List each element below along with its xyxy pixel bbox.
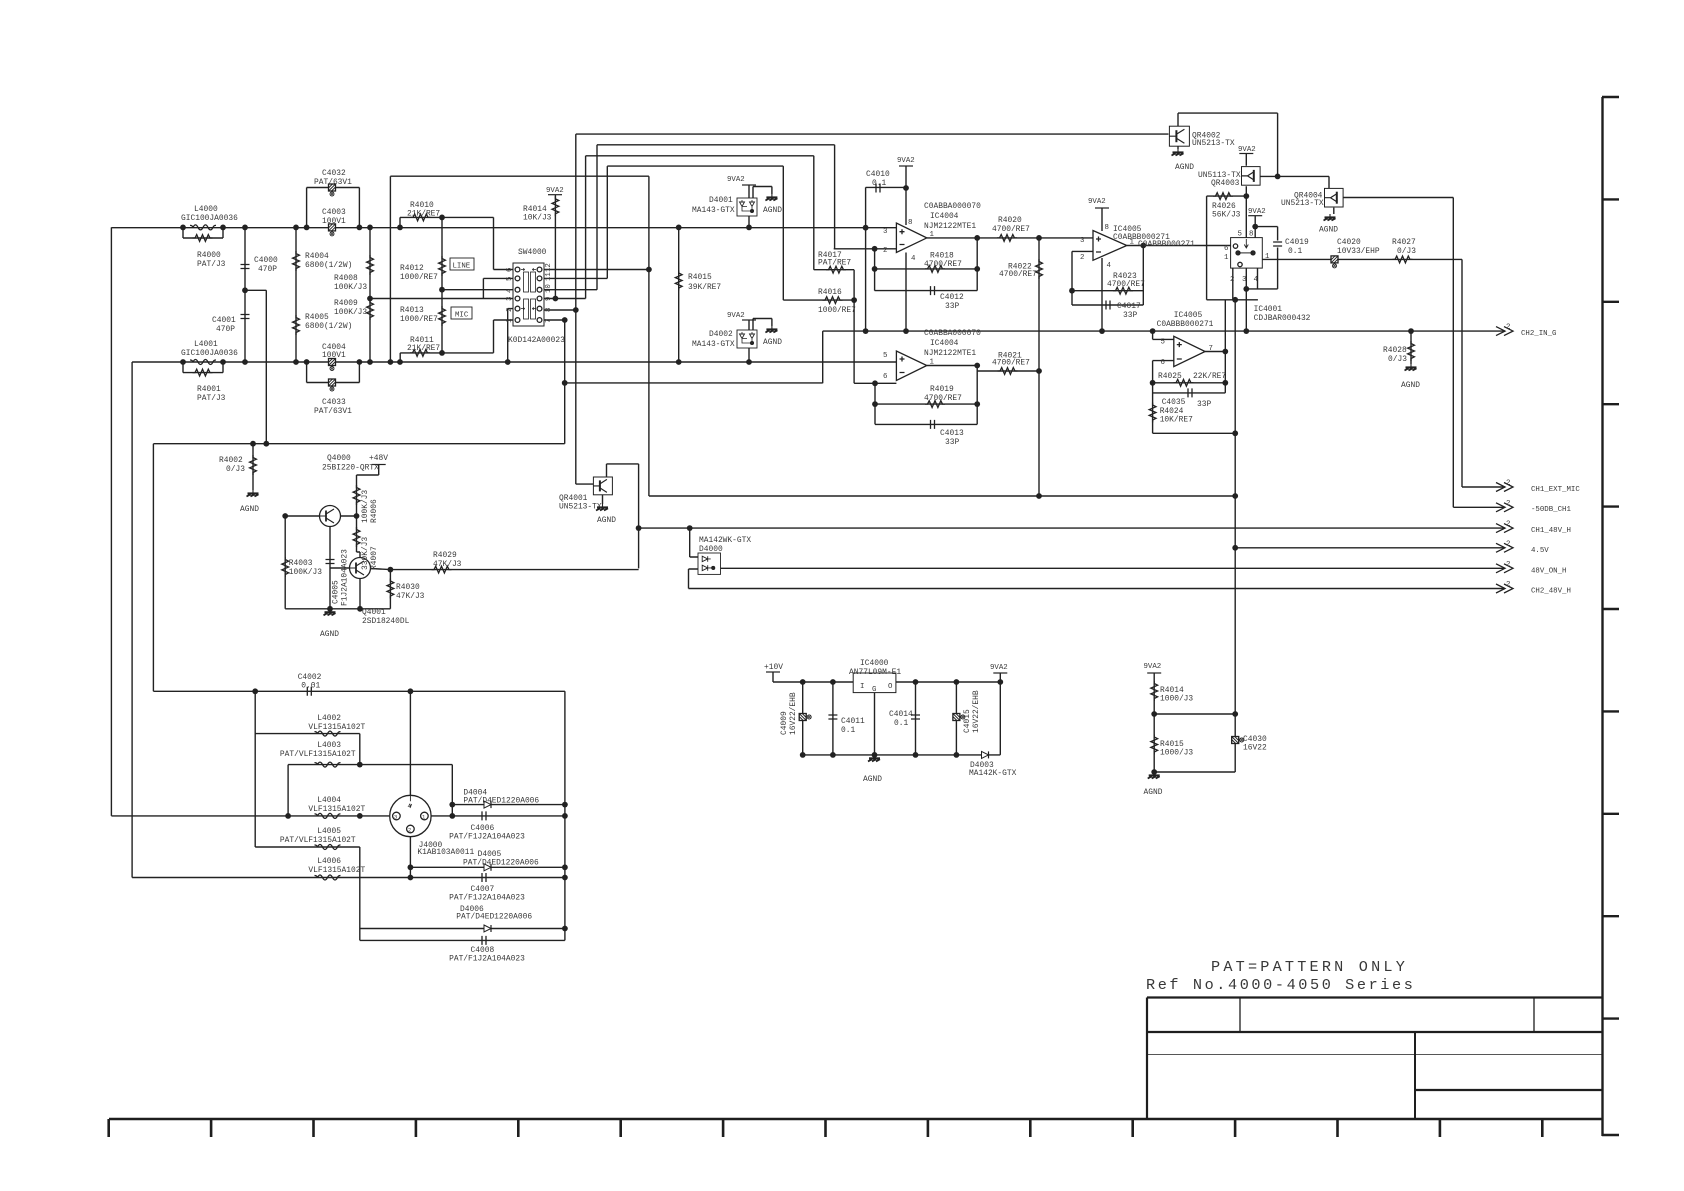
svg-text:2: 2 xyxy=(1506,581,1510,589)
svg-text:R4005: R4005 xyxy=(305,313,329,322)
svg-text:4.5V: 4.5V xyxy=(1531,547,1549,555)
svg-text:4700/RE7: 4700/RE7 xyxy=(1107,280,1145,289)
svg-text:QR4003: QR4003 xyxy=(1211,179,1240,188)
svg-text:R4008: R4008 xyxy=(334,274,358,283)
svg-text:GIC100JA0036: GIC100JA0036 xyxy=(181,349,238,358)
svg-text:C4003: C4003 xyxy=(322,208,346,217)
svg-text:2: 2 xyxy=(408,827,411,834)
svg-text:100K/J3: 100K/J3 xyxy=(289,568,322,577)
svg-text:PAT/F1J2A104A023: PAT/F1J2A104A023 xyxy=(449,955,525,964)
svg-text:5: 5 xyxy=(506,277,514,281)
svg-text:L4006: L4006 xyxy=(317,857,341,866)
svg-text:1000/J3: 1000/J3 xyxy=(1160,749,1193,758)
svg-text:C4020: C4020 xyxy=(1337,238,1361,247)
svg-text:K0D142A00023: K0D142A00023 xyxy=(508,336,565,345)
svg-text:100K/J3: 100K/J3 xyxy=(334,283,367,292)
svg-text:PAT/F1J2A104A023: PAT/F1J2A104A023 xyxy=(449,833,525,842)
svg-text:47K/J3: 47K/J3 xyxy=(396,592,425,601)
svg-text:1: 1 xyxy=(1130,239,1135,247)
svg-text:PAT/RE7: PAT/RE7 xyxy=(818,259,851,268)
svg-text:16V22/EHB: 16V22/EHB xyxy=(789,692,798,735)
svg-text:8: 8 xyxy=(908,219,912,227)
svg-text:C4012: C4012 xyxy=(940,293,964,302)
svg-text:12: 12 xyxy=(545,263,553,272)
svg-text:R4016: R4016 xyxy=(818,288,842,297)
svg-text:100K/J3: 100K/J3 xyxy=(334,308,367,317)
svg-text:UN5213-TX: UN5213-TX xyxy=(1281,199,1324,208)
svg-text:PAT/63V1: PAT/63V1 xyxy=(314,178,352,187)
svg-text:6800(1/2W): 6800(1/2W) xyxy=(305,261,352,270)
svg-text:2: 2 xyxy=(1080,254,1084,262)
svg-text:2: 2 xyxy=(506,308,514,312)
svg-text:33P: 33P xyxy=(1197,400,1211,409)
svg-text:C4017: C4017 xyxy=(1117,302,1141,311)
svg-text:O: O xyxy=(888,683,893,691)
svg-text:10V33/EHP: 10V33/EHP xyxy=(1337,247,1380,256)
svg-text:PAT/D4ED1220A006: PAT/D4ED1220A006 xyxy=(456,913,532,922)
svg-text:AGND: AGND xyxy=(1401,381,1420,390)
svg-text:MA143-GTX: MA143-GTX xyxy=(692,340,735,349)
svg-text:MA142K-GTX: MA142K-GTX xyxy=(969,769,1017,778)
svg-text:AGND: AGND xyxy=(240,505,259,514)
svg-text:1000/RE7: 1000/RE7 xyxy=(400,273,438,282)
svg-text:1: 1 xyxy=(930,359,935,367)
svg-text:AGND: AGND xyxy=(763,338,782,347)
svg-text:IC4000: IC4000 xyxy=(860,659,889,668)
svg-text:5: 5 xyxy=(1161,339,1165,347)
svg-text:9VA2: 9VA2 xyxy=(727,176,745,184)
svg-text:4: 4 xyxy=(1254,276,1259,284)
svg-text:PAT/VLF1315A102T: PAT/VLF1315A102T xyxy=(280,836,356,845)
svg-text:R4009: R4009 xyxy=(334,299,358,308)
svg-text:2SD18240DL: 2SD18240DL xyxy=(362,617,410,626)
svg-text:0.1: 0.1 xyxy=(894,719,908,728)
svg-text:L4001: L4001 xyxy=(194,340,218,349)
svg-text:R4002: R4002 xyxy=(219,456,243,465)
svg-text:AGND: AGND xyxy=(597,516,616,525)
svg-text:3: 3 xyxy=(883,228,887,236)
svg-text:IC4001: IC4001 xyxy=(1254,305,1283,314)
svg-text:LINE: LINE xyxy=(453,263,471,271)
svg-text:0.1: 0.1 xyxy=(841,726,855,735)
svg-text:+48V: +48V xyxy=(369,454,388,463)
svg-text:I: I xyxy=(860,683,864,691)
svg-text:AGND: AGND xyxy=(763,206,782,215)
svg-text:48V_ON_H: 48V_ON_H xyxy=(1531,568,1566,576)
svg-text:R4019: R4019 xyxy=(930,385,954,394)
svg-text:330K/J3: 330K/J3 xyxy=(361,537,370,570)
svg-text:G: G xyxy=(872,686,876,694)
svg-text:0.01: 0.01 xyxy=(301,682,320,691)
svg-text:K1AB103A0011: K1AB103A0011 xyxy=(417,848,474,857)
svg-text:R4000: R4000 xyxy=(197,251,221,260)
svg-text:0/J3: 0/J3 xyxy=(226,465,245,474)
svg-text:L4002: L4002 xyxy=(317,714,341,723)
svg-text:47K/J3: 47K/J3 xyxy=(433,560,462,569)
svg-text:5: 5 xyxy=(1238,231,1242,239)
svg-text:C0ABBA000070: C0ABBA000070 xyxy=(924,329,981,338)
svg-text:2: 2 xyxy=(1506,480,1510,488)
svg-text:33P: 33P xyxy=(1123,311,1137,320)
svg-text:R4003: R4003 xyxy=(289,559,313,568)
svg-text:MA143-GTX: MA143-GTX xyxy=(692,206,735,215)
svg-text:C4011: C4011 xyxy=(841,717,865,726)
svg-text:2: 2 xyxy=(883,247,887,255)
svg-text:9VA2: 9VA2 xyxy=(1238,146,1256,154)
svg-text:C0ABBB000271: C0ABBB000271 xyxy=(1157,320,1214,329)
svg-text:10K/J3: 10K/J3 xyxy=(523,214,552,223)
svg-text:5: 5 xyxy=(883,352,887,360)
svg-text:6: 6 xyxy=(506,268,514,272)
svg-text:R4013: R4013 xyxy=(400,306,424,315)
svg-text:9VA2: 9VA2 xyxy=(990,664,1008,672)
svg-text:33P: 33P xyxy=(945,438,959,447)
svg-text:PAT/VLF1315A102T: PAT/VLF1315A102T xyxy=(280,750,356,759)
svg-text:PAT/D4ED1220A006: PAT/D4ED1220A006 xyxy=(463,797,539,806)
svg-text:R4027: R4027 xyxy=(1392,238,1416,247)
svg-text:CH1_EXT_MIC: CH1_EXT_MIC xyxy=(1531,486,1580,494)
svg-text:0/J3: 0/J3 xyxy=(1397,247,1416,256)
svg-text:PAT=PATTERN ONLY: PAT=PATTERN ONLY xyxy=(1211,958,1408,976)
svg-text:470P: 470P xyxy=(216,325,235,334)
svg-text:D4002: D4002 xyxy=(709,330,733,339)
svg-text:AGND: AGND xyxy=(320,630,339,639)
svg-text:C4010: C4010 xyxy=(866,170,890,179)
svg-text:VLF1315A102T: VLF1315A102T xyxy=(308,723,365,732)
svg-text:NJM2122MTE1: NJM2122MTE1 xyxy=(924,349,976,358)
svg-text:9VA2: 9VA2 xyxy=(546,187,564,195)
svg-text:C4032: C4032 xyxy=(322,169,346,178)
svg-text:4: 4 xyxy=(408,803,412,810)
svg-text:7: 7 xyxy=(1209,345,1213,353)
svg-text:Q4000: Q4000 xyxy=(327,454,351,463)
svg-text:L4003: L4003 xyxy=(317,741,341,750)
svg-text:7: 7 xyxy=(545,319,553,323)
svg-text:1000/RE7: 1000/RE7 xyxy=(400,315,438,324)
svg-text:1: 1 xyxy=(506,318,514,323)
svg-text:L4004: L4004 xyxy=(317,796,341,805)
svg-text:2: 2 xyxy=(1230,276,1234,284)
svg-text:R4029: R4029 xyxy=(433,551,457,560)
svg-text:4: 4 xyxy=(1107,262,1112,270)
svg-text:100V1: 100V1 xyxy=(322,351,346,360)
svg-text:1: 1 xyxy=(930,231,935,239)
svg-text:8: 8 xyxy=(1105,224,1109,232)
svg-text:56K/J3: 56K/J3 xyxy=(1212,211,1241,220)
svg-text:3: 3 xyxy=(1080,237,1084,245)
svg-text:PAT/J3: PAT/J3 xyxy=(197,260,226,269)
svg-text:9VA2: 9VA2 xyxy=(897,157,915,165)
svg-text:F1J2A104A023: F1J2A104A023 xyxy=(341,549,350,606)
svg-text:CDJBAR000432: CDJBAR000432 xyxy=(1254,314,1311,323)
svg-text:D4000: D4000 xyxy=(699,545,723,554)
svg-text:6: 6 xyxy=(883,373,887,381)
svg-text:AGND: AGND xyxy=(1144,788,1163,797)
svg-text:16V22: 16V22 xyxy=(1243,744,1267,753)
svg-text:6: 6 xyxy=(1161,359,1165,367)
svg-text:4700/RE7: 4700/RE7 xyxy=(999,270,1037,279)
svg-text:NJM2122MTE1: NJM2122MTE1 xyxy=(924,222,976,231)
svg-text:IC4004: IC4004 xyxy=(930,212,959,221)
svg-text:1: 1 xyxy=(1265,253,1270,261)
svg-text:1000/RE7: 1000/RE7 xyxy=(818,306,856,315)
svg-text:33P: 33P xyxy=(945,302,959,311)
svg-text:R4006: R4006 xyxy=(370,499,379,523)
svg-text:CH1_48V_H: CH1_48V_H xyxy=(1531,527,1571,535)
svg-text:CH2_48V_H: CH2_48V_H xyxy=(1531,588,1571,596)
svg-text:4700/RE7: 4700/RE7 xyxy=(924,394,962,403)
svg-text:100K/J3: 100K/J3 xyxy=(361,490,370,523)
svg-text:C4014: C4014 xyxy=(889,710,913,719)
svg-text:470P: 470P xyxy=(258,265,277,274)
svg-text:C4001: C4001 xyxy=(212,316,236,325)
svg-text:C4000: C4000 xyxy=(254,256,278,265)
svg-text:16V22/EHB: 16V22/EHB xyxy=(972,690,981,733)
svg-text:C4009: C4009 xyxy=(780,711,789,735)
svg-text:C0ABBB000271: C0ABBB000271 xyxy=(1138,240,1195,249)
svg-text:C4035: C4035 xyxy=(1162,398,1186,407)
svg-text:4700/RE7: 4700/RE7 xyxy=(992,225,1030,234)
svg-text:3: 3 xyxy=(394,814,397,821)
svg-text:C4013: C4013 xyxy=(940,429,964,438)
svg-text:MIC: MIC xyxy=(455,312,469,320)
svg-text:6800(1/2W): 6800(1/2W) xyxy=(305,322,352,331)
svg-text:100V1: 100V1 xyxy=(322,217,346,226)
svg-text:UN5213-TX: UN5213-TX xyxy=(1192,139,1235,148)
svg-text:0/J3: 0/J3 xyxy=(1388,355,1407,364)
svg-text:9VA2: 9VA2 xyxy=(1144,663,1162,671)
svg-text:MA142WK-GTX: MA142WK-GTX xyxy=(699,536,751,545)
svg-text:C4033: C4033 xyxy=(322,398,346,407)
svg-text:GIC100JA0036: GIC100JA0036 xyxy=(181,214,238,223)
svg-text:11: 11 xyxy=(545,272,553,281)
svg-text:0.1: 0.1 xyxy=(1288,247,1302,256)
svg-text:9VA2: 9VA2 xyxy=(1088,198,1106,206)
svg-text:Q4001: Q4001 xyxy=(362,608,386,617)
svg-text:R4004: R4004 xyxy=(305,252,329,261)
svg-text:PAT/63V1: PAT/63V1 xyxy=(314,407,352,416)
svg-text:R4012: R4012 xyxy=(400,264,424,273)
svg-text:22K/RE7: 22K/RE7 xyxy=(1193,372,1226,381)
svg-text:SW4000: SW4000 xyxy=(518,248,547,257)
svg-text:8: 8 xyxy=(1249,231,1253,239)
svg-text:VLF1315A102T: VLF1315A102T xyxy=(308,866,365,875)
svg-text:+10V: +10V xyxy=(764,663,783,672)
svg-text:2: 2 xyxy=(1506,500,1510,508)
svg-text:R4030: R4030 xyxy=(396,583,420,592)
svg-text:AN77L09M-E1: AN77L09M-E1 xyxy=(849,668,901,677)
svg-text:IC4005: IC4005 xyxy=(1174,311,1203,320)
svg-text:VLF1315A102T: VLF1315A102T xyxy=(308,805,365,814)
svg-text:AGND: AGND xyxy=(1319,226,1338,235)
svg-text:L4005: L4005 xyxy=(317,827,341,836)
svg-text:0.1: 0.1 xyxy=(872,179,886,188)
svg-text:9VA2: 9VA2 xyxy=(1248,208,1266,216)
svg-text:4700/RE7: 4700/RE7 xyxy=(924,260,962,269)
svg-text:2: 2 xyxy=(1506,324,1510,332)
svg-text:Ref No.4000-4050 Series: Ref No.4000-4050 Series xyxy=(1146,976,1415,994)
svg-text:PAT/F1J2A104A023: PAT/F1J2A104A023 xyxy=(449,894,525,903)
svg-text:21K/RE7: 21K/RE7 xyxy=(407,344,440,353)
svg-text:CH2_IN_G: CH2_IN_G xyxy=(1521,330,1556,338)
svg-text:4: 4 xyxy=(911,255,916,263)
svg-text:6: 6 xyxy=(1224,245,1228,253)
svg-text:3: 3 xyxy=(506,297,514,301)
svg-text:1: 1 xyxy=(1224,254,1229,262)
svg-text:4: 4 xyxy=(506,288,514,293)
svg-text:C0ABBA000070: C0ABBA000070 xyxy=(924,202,981,211)
svg-text:1000/J3: 1000/J3 xyxy=(1160,695,1193,704)
svg-text:R4001: R4001 xyxy=(197,385,221,394)
svg-text:25BI220-QRTX: 25BI220-QRTX xyxy=(322,464,379,473)
svg-text:39K/RE7: 39K/RE7 xyxy=(688,283,721,292)
svg-text:2: 2 xyxy=(1506,561,1510,569)
svg-text:D4001: D4001 xyxy=(709,196,733,205)
svg-text:-50DB_CH1: -50DB_CH1 xyxy=(1531,506,1571,514)
svg-text:21K/RE7: 21K/RE7 xyxy=(407,210,440,219)
svg-text:L4000: L4000 xyxy=(194,205,218,214)
svg-text:R4007: R4007 xyxy=(370,546,379,570)
svg-text:R4020: R4020 xyxy=(998,216,1022,225)
svg-text:9: 9 xyxy=(545,297,553,301)
svg-text:AGND: AGND xyxy=(863,775,882,784)
svg-text:2: 2 xyxy=(1506,521,1510,529)
svg-text:2: 2 xyxy=(1506,540,1510,548)
svg-text:10K/RE7: 10K/RE7 xyxy=(1160,416,1193,425)
svg-text:UN5213-TX: UN5213-TX xyxy=(559,503,602,512)
svg-text:10: 10 xyxy=(545,284,553,293)
svg-text:R4028: R4028 xyxy=(1383,346,1407,355)
svg-text:PAT/D4ED1220A006: PAT/D4ED1220A006 xyxy=(463,859,539,868)
svg-text:AGND: AGND xyxy=(1175,163,1194,172)
svg-text:R4025: R4025 xyxy=(1158,372,1182,381)
svg-text:R4015: R4015 xyxy=(688,273,712,282)
svg-text:IC4004: IC4004 xyxy=(930,339,959,348)
svg-text:C4005: C4005 xyxy=(332,580,341,604)
svg-text:9VA2: 9VA2 xyxy=(727,312,745,320)
svg-text:3: 3 xyxy=(1242,276,1246,284)
svg-text:C4015: C4015 xyxy=(963,709,972,733)
svg-text:4700/RE7: 4700/RE7 xyxy=(992,359,1030,368)
svg-text:PAT/J3: PAT/J3 xyxy=(197,394,226,403)
svg-text:8: 8 xyxy=(545,308,553,312)
svg-text:C4019: C4019 xyxy=(1285,238,1309,247)
